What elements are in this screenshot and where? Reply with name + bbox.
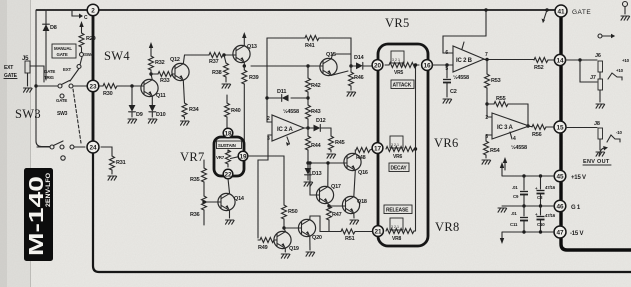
svg-text:Q13: Q13 bbox=[247, 44, 257, 50]
svg-text:21: 21 bbox=[374, 228, 382, 235]
svg-text:5: 5 bbox=[445, 66, 448, 72]
svg-text:-10: -10 bbox=[616, 130, 623, 135]
svg-text:½4558: ½4558 bbox=[283, 108, 299, 115]
svg-text:Q16: Q16 bbox=[358, 170, 368, 176]
svg-text:SW3: SW3 bbox=[15, 107, 41, 121]
svg-text:+10: +10 bbox=[616, 68, 624, 73]
svg-text:VR5: VR5 bbox=[394, 70, 404, 76]
svg-text:R44: R44 bbox=[311, 143, 322, 149]
svg-text:ATTACK: ATTACK bbox=[393, 83, 412, 89]
svg-text:DECAY: DECAY bbox=[391, 166, 408, 172]
svg-text:C10: C10 bbox=[537, 222, 545, 227]
svg-text:SW4: SW4 bbox=[84, 52, 94, 57]
svg-text:R55: R55 bbox=[496, 96, 506, 102]
svg-text:41: 41 bbox=[557, 8, 565, 15]
svg-text:R56: R56 bbox=[532, 132, 542, 138]
svg-text:R37: R37 bbox=[209, 59, 219, 65]
svg-text:Q12: Q12 bbox=[170, 57, 180, 63]
svg-text:R39: R39 bbox=[249, 75, 259, 81]
svg-text:GATE: GATE bbox=[57, 52, 68, 57]
svg-text:TRIG: TRIG bbox=[44, 75, 54, 80]
svg-text:½4558: ½4558 bbox=[453, 74, 469, 81]
svg-text:19: 19 bbox=[239, 153, 247, 160]
svg-text:R41: R41 bbox=[305, 43, 315, 49]
svg-text:R53: R53 bbox=[491, 78, 501, 84]
svg-text:VR8: VR8 bbox=[392, 236, 402, 242]
svg-text:MANUAL: MANUAL bbox=[54, 46, 72, 51]
svg-text:23: 23 bbox=[89, 83, 97, 90]
svg-text:J8: J8 bbox=[594, 121, 600, 127]
svg-text:D9: D9 bbox=[136, 112, 143, 118]
svg-text:R54: R54 bbox=[490, 148, 501, 154]
svg-text:Q14: Q14 bbox=[234, 196, 245, 202]
svg-text:47: 47 bbox=[556, 229, 564, 236]
svg-text:R43: R43 bbox=[311, 109, 321, 115]
svg-text:SUSTAIN: SUSTAIN bbox=[218, 143, 236, 148]
svg-text:17: 17 bbox=[374, 145, 382, 152]
svg-text:J7: J7 bbox=[590, 75, 596, 81]
svg-text:C9: C9 bbox=[513, 194, 519, 199]
svg-text:VR7: VR7 bbox=[216, 155, 225, 160]
svg-text:GATE: GATE bbox=[572, 9, 591, 16]
svg-text:R32: R32 bbox=[155, 60, 165, 66]
svg-text:VR7: VR7 bbox=[180, 150, 205, 164]
svg-text:R38: R38 bbox=[212, 70, 222, 76]
svg-text:-15 V: -15 V bbox=[570, 231, 584, 237]
svg-text:R29: R29 bbox=[86, 36, 96, 42]
svg-text:C: C bbox=[84, 15, 88, 21]
svg-text:Q15: Q15 bbox=[326, 52, 336, 58]
svg-text:C2: C2 bbox=[450, 89, 457, 95]
svg-text:R31: R31 bbox=[116, 160, 126, 166]
svg-text:R50: R50 bbox=[288, 209, 298, 215]
svg-text:R46: R46 bbox=[354, 75, 364, 81]
svg-text:C11: C11 bbox=[510, 222, 518, 227]
svg-text:4: 4 bbox=[513, 136, 516, 142]
svg-text:D11: D11 bbox=[277, 89, 286, 95]
svg-text:2: 2 bbox=[267, 116, 270, 122]
svg-text:R45: R45 bbox=[335, 140, 345, 146]
svg-text:14: 14 bbox=[556, 57, 564, 64]
svg-text:16: 16 bbox=[423, 62, 431, 69]
svg-text:Q19: Q19 bbox=[289, 246, 299, 252]
svg-text:R34: R34 bbox=[189, 107, 200, 113]
svg-text:Q20: Q20 bbox=[312, 235, 322, 241]
svg-text:G 1: G 1 bbox=[571, 205, 581, 211]
svg-text:Q17: Q17 bbox=[331, 184, 341, 190]
svg-text:45: 45 bbox=[556, 173, 564, 180]
svg-text:RELEASE: RELEASE bbox=[386, 208, 409, 214]
svg-text:R52: R52 bbox=[534, 65, 544, 71]
svg-text:J6: J6 bbox=[595, 53, 601, 59]
svg-text:22: 22 bbox=[224, 171, 232, 178]
svg-text:+10: +10 bbox=[622, 58, 630, 63]
svg-text:D14: D14 bbox=[354, 55, 365, 61]
svg-text:D12: D12 bbox=[316, 118, 326, 124]
svg-text:R48: R48 bbox=[356, 155, 366, 161]
svg-text:3 2 1: 3 2 1 bbox=[392, 58, 400, 62]
svg-text:C8: C8 bbox=[537, 195, 543, 200]
svg-text:2ENV-LFO: 2ENV-LFO bbox=[45, 173, 52, 207]
svg-text:R33: R33 bbox=[160, 78, 170, 84]
svg-text:D10: D10 bbox=[156, 112, 166, 118]
svg-text:½4558: ½4558 bbox=[511, 144, 527, 151]
svg-text:R30: R30 bbox=[103, 91, 113, 97]
svg-text:R36: R36 bbox=[190, 212, 200, 218]
svg-text:Q11: Q11 bbox=[156, 93, 166, 99]
svg-text:D8: D8 bbox=[50, 25, 57, 31]
svg-text:.01: .01 bbox=[512, 185, 518, 190]
svg-text:R49: R49 bbox=[258, 245, 268, 251]
svg-text:15: 15 bbox=[556, 124, 564, 131]
svg-text:GATE: GATE bbox=[44, 69, 55, 74]
svg-text:.01: .01 bbox=[511, 211, 517, 216]
svg-text:R35: R35 bbox=[190, 177, 200, 183]
svg-text:VR5: VR5 bbox=[385, 16, 410, 30]
svg-text:ENV OUT: ENV OUT bbox=[583, 159, 610, 165]
svg-text:24: 24 bbox=[89, 144, 97, 151]
svg-text:2: 2 bbox=[91, 7, 95, 14]
svg-text:20: 20 bbox=[374, 62, 382, 69]
svg-text:IC 3 A: IC 3 A bbox=[497, 125, 513, 131]
svg-text:+15 V: +15 V bbox=[571, 175, 586, 181]
svg-text:R47: R47 bbox=[332, 212, 342, 218]
svg-text:18: 18 bbox=[224, 130, 232, 137]
svg-text:D13: D13 bbox=[312, 171, 322, 177]
svg-text:46: 46 bbox=[556, 203, 564, 210]
svg-text:R51: R51 bbox=[345, 236, 355, 242]
svg-text:2: 2 bbox=[485, 115, 488, 121]
svg-text:47/16: 47/16 bbox=[545, 213, 556, 218]
svg-text:R40: R40 bbox=[231, 108, 241, 114]
svg-text:GATE: GATE bbox=[56, 98, 67, 103]
svg-text:VR8: VR8 bbox=[435, 220, 460, 234]
svg-text:VR6: VR6 bbox=[434, 136, 459, 150]
svg-text:47/16: 47/16 bbox=[545, 185, 556, 190]
svg-text:7: 7 bbox=[485, 52, 488, 58]
svg-text:IC 2 A: IC 2 A bbox=[277, 127, 293, 133]
svg-text:EXT: EXT bbox=[4, 65, 13, 71]
svg-text:EXT: EXT bbox=[63, 67, 71, 72]
svg-text:Q18: Q18 bbox=[357, 199, 367, 205]
svg-text:IC 2 B: IC 2 B bbox=[456, 58, 473, 64]
svg-text:VR6: VR6 bbox=[393, 154, 403, 160]
svg-text:R42: R42 bbox=[311, 83, 321, 89]
svg-text:SW3: SW3 bbox=[57, 111, 68, 117]
svg-text:SW4: SW4 bbox=[104, 49, 130, 63]
